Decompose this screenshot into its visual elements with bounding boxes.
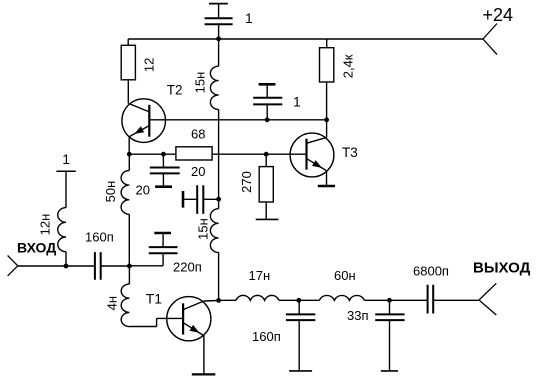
node junction input xyxy=(64,264,69,269)
svg-text:Т2: Т2 xyxy=(167,83,183,98)
ground C160п xyxy=(289,370,312,372)
svg-text:50н: 50н xyxy=(103,181,118,203)
svg-text:6800п: 6800п xyxy=(413,263,449,278)
inductor L 50н xyxy=(121,154,129,266)
node junction C160п bottom xyxy=(296,298,301,303)
transistor T2 xyxy=(122,99,166,154)
node junction 220п/50н/4н xyxy=(127,264,132,269)
svg-text:ВЫХОД: ВЫХОД xyxy=(473,259,531,276)
wire T2 base row y120 xyxy=(149,119,326,121)
svg-text:160п: 160п xyxy=(85,230,114,245)
svg-text:17н: 17н xyxy=(249,268,271,283)
transistor T1 xyxy=(167,297,219,375)
svg-text:+24: +24 xyxy=(483,5,514,25)
svg-text:Т1: Т1 xyxy=(146,290,163,306)
terminal input xyxy=(8,256,18,276)
svg-text:1: 1 xyxy=(293,94,301,110)
node junction C33п xyxy=(387,298,392,303)
ground C33п xyxy=(381,370,398,372)
node junction T2 emitter xyxy=(127,152,132,157)
capacitor C1 1 (top feedthrough) xyxy=(205,4,233,39)
svg-text:1: 1 xyxy=(62,151,70,167)
resistor R 68 xyxy=(176,147,212,160)
capacitor C 160п (input) xyxy=(95,252,101,280)
node junction C20R / 15н xyxy=(216,197,221,202)
svg-text:220п: 220п xyxy=(173,260,202,275)
inductor L 60н xyxy=(319,295,364,300)
capacitor C 6800п xyxy=(428,285,434,314)
svg-text:15н: 15н xyxy=(196,218,211,240)
svg-text:ВХОД: ВХОД xyxy=(17,240,56,256)
inductor L 12н xyxy=(58,171,66,266)
capacitor C 220п (to case) xyxy=(149,233,178,266)
wire input row y266 xyxy=(18,265,130,267)
capacitor C 160п (output filter) xyxy=(286,300,315,371)
svg-text:20: 20 xyxy=(136,183,150,198)
svg-text:12: 12 xyxy=(142,58,157,72)
capacitor C 20 (left, to case) xyxy=(150,154,180,187)
inductor L 15н (lower) xyxy=(210,199,218,300)
svg-text:4н: 4н xyxy=(105,296,120,310)
transistor T3 xyxy=(290,120,334,185)
capacitor C 33п xyxy=(375,300,404,371)
svg-text:15н: 15н xyxy=(193,72,208,94)
node junction R2,4k bottom xyxy=(324,117,329,122)
inductor L 15н (upper) xyxy=(210,66,218,109)
terminal 1 (input tap) xyxy=(56,170,75,172)
wire top +24 rail xyxy=(128,38,483,40)
capacitor C 1 (middle feedthrough) xyxy=(253,84,282,120)
svg-text:2,4к: 2,4к xyxy=(341,54,356,78)
node junction R270 top xyxy=(264,152,269,157)
ground T1 emitter xyxy=(192,373,216,375)
node junction cap1-mid xyxy=(265,117,270,122)
wire mid column continues xyxy=(218,109,220,199)
svg-text:1: 1 xyxy=(245,10,253,26)
svg-text:20: 20 xyxy=(191,164,205,179)
svg-text:12н: 12н xyxy=(38,214,53,236)
svg-text:33п: 33п xyxy=(347,308,369,323)
resistor R 12 xyxy=(121,39,135,104)
ground R270 xyxy=(256,218,279,220)
node junction C20 left xyxy=(161,152,166,157)
wire bottom rail xyxy=(219,299,479,301)
terminal +24 xyxy=(483,24,497,55)
wire mid column x219 xyxy=(218,39,220,66)
node junction top xyxy=(216,36,221,41)
svg-text:160п: 160п xyxy=(252,329,281,344)
resistor R 2,4к xyxy=(320,39,334,120)
svg-text:270: 270 xyxy=(239,171,254,193)
resistor R 270 xyxy=(259,154,273,219)
wire 220п row xyxy=(129,265,163,267)
capacitor C 20 (right, to case) xyxy=(183,185,219,214)
svg-text:60н: 60н xyxy=(334,268,356,283)
ground T3 emitter xyxy=(318,185,335,188)
wire row y154 xyxy=(129,153,306,155)
svg-text:Т3: Т3 xyxy=(342,145,358,160)
inductor L 17н xyxy=(236,295,279,300)
terminal output xyxy=(479,283,496,315)
node junction T1 collector xyxy=(216,298,221,303)
inductor L 4н xyxy=(121,266,183,327)
svg-text:68: 68 xyxy=(191,126,205,141)
